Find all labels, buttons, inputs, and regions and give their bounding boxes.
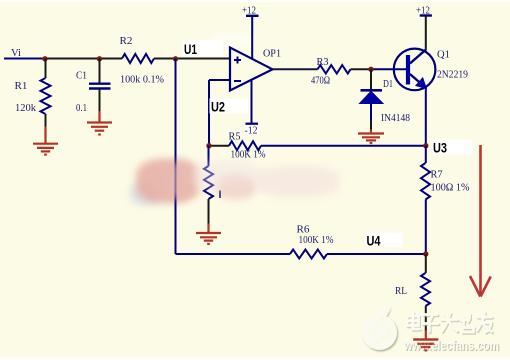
blurred watermark patch gray-blue	[130, 182, 161, 205]
node label U2	[210, 99, 249, 115]
wire U1 to op-amp plus input	[176, 58, 231, 60]
node label U4	[365, 233, 403, 249]
junction node A	[42, 56, 47, 61]
blurred watermark patch pale pink	[256, 166, 340, 197]
diode D1 lead bottom	[370, 104, 372, 121]
resistor R3	[318, 65, 351, 73]
haze over hidden resistor	[193, 161, 257, 189]
wire R7 to U4	[425, 200, 427, 255]
resistor RL lead top	[425, 254, 427, 273]
diode D1	[360, 90, 384, 103]
ground D1	[358, 130, 384, 144]
resistor R4 (hidden by blur)	[204, 166, 213, 199]
op-amp plus input mark	[234, 57, 241, 64]
capacitor C1	[89, 84, 111, 89]
watermark logo disc	[362, 306, 397, 350]
wire R5 run (U2 to U3)	[209, 145, 229, 147]
resistor R1 leads	[45, 59, 47, 79]
wire R3 to node D	[351, 68, 372, 70]
resistor RL lead bottom	[425, 306, 427, 331]
resistor R5	[229, 141, 261, 150]
wire op-amp minus input	[209, 79, 230, 81]
ground RL	[413, 330, 438, 350]
wire R2 to node U1	[154, 58, 176, 60]
junction node U2	[206, 143, 211, 148]
watermark logo cutouts	[367, 307, 393, 348]
transistor Q1 base bar	[406, 55, 410, 85]
power -12 op-amp	[244, 80, 260, 137]
transistor Q1 emitter	[410, 74, 422, 85]
resistor R4 lead bottom	[208, 199, 210, 225]
wire U1 vertical down left side	[175, 59, 177, 255]
wire R6 to node U4	[327, 253, 426, 255]
resistor R7 lead top	[425, 146, 427, 163]
op-amp U1 triangle OP1	[230, 48, 273, 91]
haze over salmon	[150, 162, 198, 198]
resistor R4 lead top	[208, 146, 210, 166]
wire node D to Q1 base	[371, 68, 406, 70]
wire U2 vertical	[208, 80, 210, 146]
op-amp minus input mark	[234, 80, 241, 82]
wire op-amp output	[273, 68, 318, 70]
power +12 op-amp	[242, 5, 259, 59]
resistor RL	[421, 273, 430, 306]
resistor R7	[421, 163, 430, 200]
leftover label mark	[219, 191, 221, 199]
junction node B	[97, 56, 102, 61]
wire Vi input	[4, 58, 45, 60]
blurred white patch above op-amp	[212, 33, 253, 47]
capacitor C1 lead top	[99, 59, 101, 83]
node label U1	[183, 40, 224, 57]
node label U3	[432, 140, 473, 156]
resistor R6	[290, 250, 327, 259]
resistor R1	[41, 78, 51, 114]
transistor Q1 collector	[410, 50, 426, 64]
junction node U4	[423, 251, 428, 256]
resistor R2	[122, 54, 154, 63]
transistor Q1 circle	[394, 49, 436, 91]
junction node D	[368, 67, 373, 72]
junction node U1	[173, 56, 178, 61]
blurred watermark patch salmon	[136, 159, 200, 203]
ground R1	[33, 127, 58, 155]
wire node A to node B	[45, 58, 122, 60]
blurred watermark patch milky	[193, 162, 265, 194]
ground C1	[87, 111, 112, 135]
ground RL (over watermark)	[413, 340, 438, 351]
watermark swoosh arc	[357, 337, 374, 353]
wire R5 to node U3	[261, 145, 426, 147]
capacitor C1 lead bottom	[99, 90, 101, 113]
haze over left line	[166, 164, 192, 198]
transistor Q1 emitter arrowhead	[416, 78, 426, 89]
junction node U3	[423, 143, 428, 148]
diode D1 lead top	[370, 69, 372, 89]
blurred watermark patch pink	[217, 175, 255, 199]
power +12 Q1	[416, 5, 432, 51]
wire Q1 emitter down to U3	[425, 87, 427, 146]
red current arrow	[470, 145, 491, 297]
ground R4	[196, 224, 221, 244]
wire bottom run to R6	[176, 253, 291, 255]
watermark chinese text 电子发烧友 (drawn strokes)	[408, 314, 493, 334]
